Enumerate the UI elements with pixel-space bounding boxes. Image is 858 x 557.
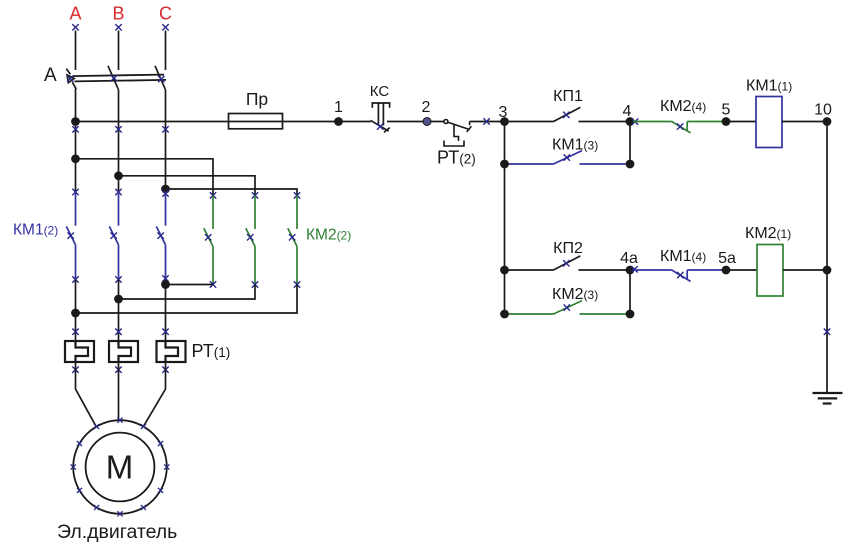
wire KM2 pole3 crossover to A [76,285,298,314]
wire KC to node 2 to PT contact [387,121,444,123]
crossing mark phase B [115,126,121,132]
mark below KM1 pole A [72,276,78,282]
motor M outer circle [73,420,167,514]
contact KM1(4) NC interlock [633,270,722,281]
svg-text:КП2: КП2 [553,240,583,257]
mark on KM1(2) pole B blade [111,233,117,239]
mark below heater B [115,367,121,373]
mark on KM2(2) pole1 blade [205,234,211,240]
mark on KM2(2) pole2 blade [247,234,253,240]
ground [813,393,843,404]
contact KM2(4) NC interlock [633,122,722,133]
wire coil KM1(1) to node 10 [782,121,827,123]
wire control feeder from phase A to fuse [76,121,371,123]
wire phase B top drop [118,31,120,71]
svg-text:B: B [112,4,124,24]
wire PT(2) to node 3 [470,121,554,123]
node A-control junction [71,117,80,126]
terminal mark phase A [72,24,78,30]
mark at node 4a [631,266,637,272]
contact KP1 (start button fwd) [554,107,581,121]
mark above heater A [72,329,78,335]
wire heater B to motor [118,362,120,421]
wire phase B vertical [118,89,120,192]
node 5a [722,266,731,275]
svg-text:А: А [44,65,57,86]
svg-text:3: 3 [499,104,508,121]
svg-text:КМ1(2): КМ1(2) [13,222,58,239]
node 3 [500,117,509,126]
svg-text:4: 4 [623,103,632,120]
wire KM2 pole2 crossover to B [119,285,256,300]
mark on KM1(4) blade [677,272,683,278]
thermal relay heater PT(1) phase C [157,341,186,362]
terminal mark phase B [115,24,121,30]
mark on KM2(4) blade [677,123,683,129]
node 4a [626,266,635,275]
mark at node 4 [632,119,638,125]
mark above KM2 pole3 [294,192,300,198]
mark on KM2(3) blade [564,304,570,310]
mark above KM1 pole B [115,189,121,195]
svg-text:КМ2(1): КМ2(1) [745,225,791,242]
contactor KM1(2) pole B [109,192,118,280]
node C branch [161,185,170,194]
mark on KM2(2) pole3 blade [289,234,295,240]
mark above heater C [162,329,168,335]
mark below heater A [72,367,78,373]
mark on KM1(2) pole A blade [68,233,74,239]
contactor KM1(2) pole C [156,194,165,281]
wire phase B to heater [118,280,120,342]
mark below KM1 pole C [162,275,168,281]
switch A pole 2 blade [108,66,118,90]
wire C to KM2 pole3 top [166,189,298,195]
svg-text:КМ1(4): КМ1(4) [660,248,706,265]
svg-text:КМ2(2): КМ2(2) [306,227,351,244]
wire KP1 to node 4 [579,121,631,123]
mark below KM2 pole3 [294,281,300,287]
svg-text:М: М [106,449,134,486]
node coil KM2 return junction [823,266,832,275]
crossing mark phase C [162,126,168,132]
svg-text:КМ1(1): КМ1(1) [746,78,792,95]
mark above heater B [115,329,121,335]
node KP2 left [500,266,509,275]
wire right return vertical [826,122,828,394]
switch A pole 2 mark [111,75,117,81]
node crossover A [71,309,80,318]
switch A pole 3 blade [155,66,165,90]
motor terminal marks [71,418,170,517]
svg-text:КС: КС [370,83,390,100]
node KM2(3) right [626,310,635,319]
pushbutton KC (stop) [371,103,390,132]
contact KP2 (start button rev) [505,269,554,271]
wire phase C vertical [165,89,167,189]
wire KM2 pole1 crossover to C [166,284,214,286]
terminal mark phase C [162,24,168,30]
contact KM2(3) self-hold [505,301,631,314]
node 1 [334,117,343,126]
svg-text:10: 10 [814,102,832,119]
wire heater A to motor [76,362,97,426]
svg-text:КМ2(3): КМ2(3) [552,286,598,303]
mark below heater C [162,367,168,373]
coil KM2(1) [726,269,757,271]
switch A pole 3 mark [158,76,164,82]
node 2 (hatched terminal) [423,118,431,126]
wire heater C to motor [144,362,166,426]
wire 4a column down [629,270,631,314]
thermal relay heater PT(1) phase B [109,341,138,362]
mark above KM2 pole1 [210,192,216,198]
fuse Пр [229,114,283,129]
mark below KM1 pole B [115,276,121,282]
wire KP2 to node 4a [579,269,631,271]
svg-text:A: A [69,4,81,24]
mark before node 3 [483,118,489,124]
mark on KC blade [377,123,383,129]
wire B to KM2 pole2 top [119,176,256,196]
wire phase C to heater [165,280,167,341]
svg-text:2: 2 [422,99,431,116]
motor M inner circle [86,433,155,502]
node crossover B [114,295,123,304]
mark above KM1 pole A [72,189,78,195]
svg-text:КМ1(3): КМ1(3) [552,137,598,154]
contactor KM1(2) pole A [66,192,75,280]
switch A pole 1 handle mark [67,75,73,81]
thermal relay heater PT(1) phase A [65,341,94,362]
wire node4 column down [629,122,631,165]
svg-text:4a: 4a [620,250,638,267]
wire phase A to heater [75,280,77,342]
svg-text:Пр: Пр [246,89,268,109]
node KM2(3) left [500,310,509,319]
wire phase A vertical [75,89,77,192]
switch A link bar [73,75,167,82]
node 5 [722,117,731,126]
wire phase A top drop [75,31,77,71]
mark below KM2 pole2 [252,281,258,287]
node 10 [823,117,832,126]
svg-text:КП1: КП1 [553,88,583,105]
mark on KP1 blade [563,112,569,118]
contactor KM2(2) pole 3 [288,195,297,284]
crossing mark right vertical [824,329,830,335]
mark below KM2 pole1 [210,281,216,287]
wire coil KM2(1) to right vertical [783,269,827,271]
thermal relay contact PT(2) [444,120,472,147]
node KM1(3) left [500,160,509,169]
wire node3 column down [504,122,506,315]
coil KM1(1) [726,121,756,123]
contactor KM2(2) pole 1 [204,195,213,284]
node B branch [114,171,123,180]
mark on KM1(3) blade [564,154,570,160]
svg-text:КМ2(4): КМ2(4) [660,98,706,115]
svg-text:5a: 5a [718,250,736,267]
svg-text:1: 1 [334,99,343,116]
node A branch [71,154,80,163]
wire A to KM2 pole1 top [76,159,214,196]
mark on KM1(2) pole C blade [158,233,164,239]
node 4 [626,117,635,126]
crossing mark phase A [72,126,78,132]
mark above KM1 pole C [162,190,168,196]
mark above KM2 pole2 [252,192,258,198]
wire phase C top drop [165,31,167,71]
svg-text:5: 5 [722,102,731,119]
svg-text:C: C [159,4,172,24]
node KM1(3) right [626,160,635,169]
contact KM1(3) self-hold [505,151,631,164]
svg-text:Эл.двигатель: Эл.двигатель [57,521,177,543]
node crossover C [161,280,170,289]
mark on KP2 blade [563,260,569,266]
switch A pole 1 blade [66,69,76,90]
contactor KM2(2) pole 2 [246,195,255,284]
